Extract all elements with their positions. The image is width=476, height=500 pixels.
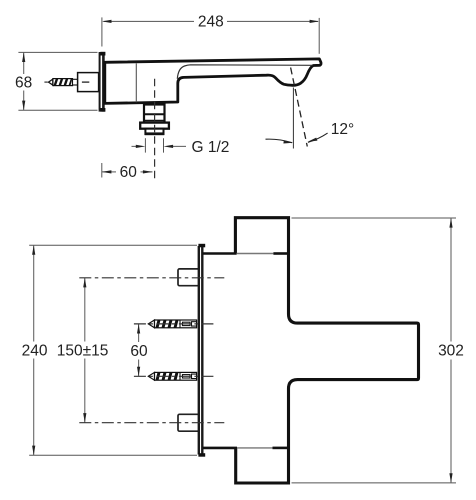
hole centerline upper [79,277,224,279]
top junction edge thick right [273,252,288,255]
screw centerline upper [134,323,216,325]
connector separator lines [144,113,165,115]
body outline (plan view) [235,218,418,483]
body divider line [135,63,137,102]
240 dimension line [33,245,35,341]
dimension 248 line [104,20,319,22]
connector bottom face [145,132,165,135]
svg-text:248: 248 [198,14,224,31]
12 degree arc arrows [283,140,293,143]
dimension 68 line [23,52,25,74]
wall screw plain shank [73,79,78,85]
connector ring [140,123,169,129]
wall screw threaded shank [53,79,73,86]
wall plate (plan view) [198,244,205,457]
svg-text:G 1/2: G 1/2 [192,139,230,156]
wall screw centerline dash [44,81,47,83]
240 arrows [32,245,35,255]
302 extension lines [292,217,457,219]
dimension 68 extension lines [18,51,97,53]
302 arrows [449,218,452,228]
60 dimension arrows [102,170,112,173]
connector bottom piece [145,129,163,134]
wall connector center dash [82,81,89,83]
mounting hole upper [178,269,199,286]
60 arrows (bottom view) [137,324,140,334]
G 1/2 extension lines [144,138,146,152]
dimension 248 arrows [102,20,319,23]
60 dimension (top view) extension line [101,163,103,178]
302 dimension line [450,218,452,342]
svg-text:240: 240 [22,342,48,359]
12 degree vertical reference line [292,88,294,149]
spout inner top edge [177,65,312,79]
bottom junction edge thin middle [237,447,273,449]
svg-text:68: 68 [15,75,32,92]
240 dimension extension lines [29,244,197,246]
G1/2 connector neck [144,105,165,123]
12 degree arc left [266,139,293,143]
extension line right of 248 [318,18,320,54]
12 degree arc right [308,133,328,142]
bottom junction edge thick right [273,447,289,450]
wall screw cone tip [49,79,53,85]
60 dimension line (bottom view) [138,324,140,342]
hole centerline lower [79,422,224,424]
12 degree inclined dashed line [291,68,308,147]
150±15 dimension line [84,278,86,342]
bottom junction edge thick left [203,447,238,450]
60 dimension line [102,171,116,173]
extension line left of 248 [101,17,103,46]
svg-text:302: 302 [438,343,464,360]
wall flange plate (top view) [100,52,106,112]
anchor screw lower [148,372,196,380]
top junction edge thin middle [237,253,274,255]
anchor screw upper [148,320,196,328]
dimension 68 arrows [22,52,25,110]
wall connector cylinder [78,73,99,92]
150±15 arrows [83,278,86,288]
screw centerline lower [134,375,216,377]
svg-text:12°: 12° [331,121,354,138]
top junction edge thick left [203,252,237,255]
connector vertical centerline [154,79,156,181]
svg-text:150±15: 150±15 [57,343,109,360]
mounting hole lower [178,414,199,431]
spout body and nose outline [105,59,321,104]
G 1/2 dimension lines and arrows [132,145,138,147]
svg-text:60: 60 [130,343,148,360]
svg-text:60: 60 [120,164,138,181]
